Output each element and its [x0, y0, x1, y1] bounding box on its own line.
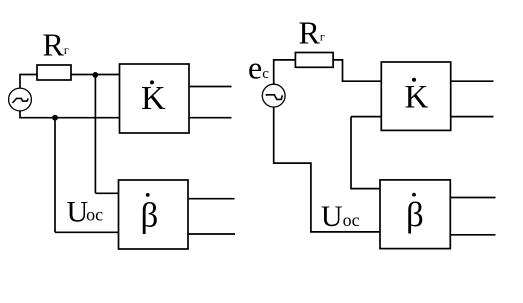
svg-text:β: β	[406, 195, 424, 234]
svg-text:Uoc: Uoc	[67, 196, 104, 229]
svg-text:K: K	[141, 80, 166, 117]
svg-text:ec: ec	[248, 49, 269, 85]
svg-text:Uoc: Uoc	[321, 200, 360, 233]
svg-text:β: β	[141, 196, 159, 235]
svg-text:Rг: Rг	[299, 14, 325, 50]
svg-text:Rг: Rг	[43, 27, 69, 63]
svg-text:K: K	[405, 79, 429, 115]
